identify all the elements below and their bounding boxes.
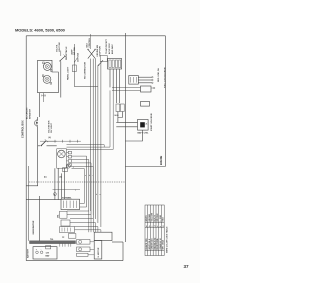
junction node J1 <box>53 193 56 196</box>
svg-text:ACLE 120V: ACLE 120V <box>108 43 111 54</box>
svg-text:BROWN: BROWN <box>149 213 151 221</box>
label volt meter lamp <box>56 42 61 52</box>
control box bottom-right border <box>125 166 165 168</box>
switch S1b blade <box>74 58 77 63</box>
svg-text:BREAKER: BREAKER <box>28 109 31 119</box>
wire reg out 3 <box>138 82 153 83</box>
svg-text:T.B.: T.B. <box>50 239 54 241</box>
svg-text:e: e <box>100 194 101 196</box>
meter panel box <box>38 60 59 92</box>
main bus wire <box>124 33 126 242</box>
wire col1 <box>60 62 62 98</box>
svg-text:ENGINE: ENGINE <box>160 155 163 165</box>
circuit breaker CB1 <box>35 117 38 146</box>
wire meter drop <box>38 93 40 117</box>
harness dashed boundary <box>29 181 125 183</box>
plug P3 <box>77 253 88 256</box>
svg-text:IDLE: IDLE <box>86 42 88 47</box>
wire meter drop 2 <box>43 93 45 102</box>
wire switch to lamp <box>38 145 57 147</box>
svg-text:g: g <box>54 194 55 196</box>
svg-text:(k): (k) <box>49 137 52 139</box>
plug P1 <box>77 240 90 245</box>
cluster wires right <box>67 204 101 230</box>
svg-text:GR. BLK: GR. BLK <box>157 213 159 222</box>
svg-text:NEG. LINE, 9A: NEG. LINE, 9A <box>157 68 160 82</box>
terminal strip bus <box>30 239 76 243</box>
wire color table <box>145 205 164 256</box>
svg-text:BLACK 16G: BLACK 16G <box>145 238 148 249</box>
wire reg out 1 <box>138 77 153 78</box>
plug wires <box>88 242 94 255</box>
wire bus v1 <box>54 168 56 199</box>
terminal bar B6 <box>112 86 155 92</box>
wire border jog <box>26 185 38 187</box>
svg-text:(k): (k) <box>60 177 63 179</box>
label col4 <box>97 45 102 57</box>
label VOLT METER <box>48 120 53 133</box>
wire bus v7 <box>90 163 92 215</box>
table text col1 <box>145 213 165 250</box>
wire reg out 2 <box>138 79 153 80</box>
wire relay left 1 <box>116 121 137 123</box>
cluster box D3 <box>60 227 75 233</box>
svg-text:RED: RED <box>163 217 165 222</box>
wire bus v13 <box>100 62 102 228</box>
svg-text:WHITE BLK: WHITE BLK <box>149 238 151 249</box>
svg-text:a: a <box>85 175 86 177</box>
svg-text:CONTROL BOX: CONTROL BOX <box>21 120 24 138</box>
bus drop wires <box>60 244 71 247</box>
pilot lamp L1 <box>57 149 67 168</box>
wire pin drop 2 <box>112 69 114 90</box>
svg-text:37: 37 <box>184 264 190 269</box>
breaker drop wire <box>37 146 39 186</box>
volt meter M2 <box>42 75 51 84</box>
svg-text:H.M.: H.M. <box>115 115 120 117</box>
wire col1 stub <box>60 51 62 57</box>
node letter marks <box>76 175 101 196</box>
svg-text:MODELS: 4600, 5300, 6500: MODELS: 4600, 5300, 6500 <box>15 27 66 32</box>
wire y141 ticks <box>55 140 78 143</box>
terminal bar B7 <box>141 102 150 107</box>
svg-text:120V 20A: 120V 20A <box>77 53 80 62</box>
svg-text:LAMP: LAMP <box>70 49 73 55</box>
svg-text:(k): (k) <box>44 177 47 179</box>
wire relay down <box>125 130 142 141</box>
switch S0 <box>60 55 67 62</box>
svg-text:BLUE 16GA: BLUE 16GA <box>156 238 159 249</box>
switch S3 <box>98 60 103 65</box>
wire bus v5 <box>86 156 88 207</box>
wire lamp-HM 0 <box>67 145 105 147</box>
wire bus v12 <box>97 65 99 223</box>
svg-text:RECEPTACLE: RECEPTACLE <box>65 46 68 60</box>
control box left border <box>25 36 27 261</box>
fuse box FB <box>46 246 51 249</box>
svg-text:BLK. R.: BLK. R. <box>155 214 157 221</box>
svg-text:WIRE COLOR CODE TABLE: WIRE COLOR CODE TABLE <box>166 226 169 253</box>
engine section top border <box>112 241 123 243</box>
svg-text:L. GRN: L. GRN <box>160 214 162 221</box>
connector block CN3 <box>61 199 80 209</box>
wire pin drop 4 <box>119 69 121 103</box>
control box right border <box>164 36 166 167</box>
engine section right border <box>122 242 124 261</box>
wire bus v9 <box>90 59 92 211</box>
svg-text:NO CONNECTION: NO CONNECTION <box>85 61 87 79</box>
wire horiz y189 <box>53 188 81 190</box>
svg-text:FUEL CUT SOLENOID: FUEL CUT SOLENOID <box>165 67 167 88</box>
svg-text:YELLOW: YELLOW <box>152 213 154 221</box>
svg-text:BATT. CHG.: BATT. CHG. <box>138 132 150 135</box>
svg-text:ORANGE 16: ORANGE 16 <box>159 238 162 249</box>
svg-text:GENERATOR: GENERATOR <box>32 220 35 234</box>
svg-text:WHITE: WHITE <box>146 215 148 222</box>
wire horiz y141 <box>40 140 81 142</box>
svg-text:VOLT METER: VOLT METER <box>48 120 50 133</box>
svg-text:AC CIRCUIT: AC CIRCUIT <box>26 107 29 119</box>
fuse F1 <box>72 65 76 72</box>
svg-text:CONTROL: CONTROL <box>89 37 91 47</box>
wire left inner <box>28 166 30 241</box>
wire lamp-HM 2 <box>67 90 114 149</box>
wire bus v10 <box>92 59 94 215</box>
svg-text:GREEN 14G: GREEN 14G <box>151 238 154 250</box>
svg-text:TO AC RECEPT: TO AC RECEPT <box>105 38 108 54</box>
hour meter terminals HM <box>115 104 125 117</box>
engine junction box E1 <box>94 232 112 240</box>
svg-text:STOP RUN: STOP RUN <box>100 46 102 57</box>
wire pin drop 1 <box>109 69 111 87</box>
regulator box B5 <box>129 76 139 85</box>
connector block CN2 <box>108 59 122 70</box>
switch K1 <box>41 137 52 146</box>
wire pin drop 3 <box>115 69 117 103</box>
svg-text:ENGINE SW: ENGINE SW <box>97 45 99 57</box>
label col2 <box>70 47 76 55</box>
wire bus v8b <box>72 169 85 204</box>
cluster box D4 <box>68 234 76 239</box>
cluster box D1 <box>60 211 67 218</box>
connector pins CN1 <box>67 151 94 166</box>
control box top border <box>26 35 165 37</box>
idle box B4 <box>100 55 107 61</box>
control box bottom border <box>26 260 123 262</box>
pilot lamp L2 <box>63 164 75 172</box>
svg-text:TO PANEL: TO PANEL <box>62 196 72 199</box>
wire relay left 2 <box>116 126 137 128</box>
label col3 <box>86 37 91 47</box>
label AC CIRCUIT BREAKER <box>26 107 32 119</box>
label connector <box>105 38 114 54</box>
svg-text:b: b <box>89 175 90 177</box>
svg-text:AND 240V: AND 240V <box>111 44 114 54</box>
svg-text:SW. 15A: SW. 15A <box>73 47 76 55</box>
wire bus v6 <box>88 160 90 212</box>
switch S2 crossover <box>88 34 96 59</box>
wire bus v3b <box>64 168 66 199</box>
wire lamp-HM 1 <box>67 90 111 147</box>
wire cluster to engine <box>89 211 101 232</box>
svg-text:PANEL LIGHT: PANEL LIGHT <box>67 66 70 80</box>
wire bus v8 <box>92 166 94 218</box>
svg-text:12V LIGHT: 12V LIGHT <box>51 122 53 133</box>
svg-text:RED BLK 8G: RED BLK 8G <box>155 237 157 249</box>
engine tall box E2 <box>94 241 102 260</box>
wire bus v3 <box>60 173 62 199</box>
wire bus v4 <box>74 44 98 87</box>
wire gen vert <box>38 196 40 241</box>
svg-text:START. SOLENOID: START. SOLENOID <box>150 113 153 131</box>
plug P2 <box>77 247 90 252</box>
svg-text:VOLT M.: VOLT M. <box>56 44 58 52</box>
wire HM drop <box>118 112 122 123</box>
svg-text:d: d <box>96 194 97 196</box>
cluster box D2 <box>61 220 70 226</box>
starter relay K2 <box>138 120 149 131</box>
svg-text:WH. 16GA: WH. 16GA <box>162 240 165 250</box>
wire horiz y199 <box>26 199 61 201</box>
wire bus v11 <box>94 59 96 219</box>
svg-text:S. MOTOR: S. MOTOR <box>98 247 100 257</box>
battery box BT1 <box>33 247 57 259</box>
wire bus v2 <box>57 168 59 199</box>
hour meter M1 <box>43 62 52 71</box>
svg-text:BATTERY: BATTERY <box>27 248 30 258</box>
